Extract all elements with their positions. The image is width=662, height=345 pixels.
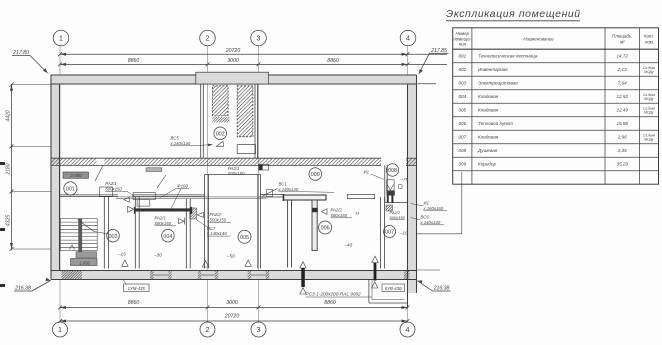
svg-text:–15: –15: [117, 252, 126, 257]
svg-text:500х150: 500х150: [390, 215, 406, 220]
svg-text:008: 008: [388, 168, 397, 174]
svg-text:008: 008: [458, 148, 466, 153]
room 008 west wall: [385, 165, 387, 202]
svg-text:Электрощитовая: Электрощитовая: [478, 81, 518, 86]
svg-text:2,13: 2,13: [617, 67, 627, 72]
svg-text:КУВ-43Б: КУВ-43Б: [385, 286, 402, 291]
exterior wall fills: [51, 75, 417, 293]
ventilation duct bar room 006 (outlined): [283, 194, 326, 201]
svg-text:500х150: 500х150: [331, 213, 348, 218]
svg-text:005: 005: [240, 235, 249, 241]
svg-text:003: 003: [109, 234, 118, 240]
svg-text:2180: 2180: [6, 163, 12, 175]
table header row line: [453, 48, 659, 50]
svg-text:2.550: 2.550: [70, 173, 83, 178]
svg-text:500х150: 500х150: [155, 221, 172, 226]
elevation mark 216.38 bottom right: [417, 270, 451, 292]
level box 1.650 under stairs: [71, 259, 98, 266]
svg-text:14,72: 14,72: [616, 54, 628, 59]
svg-text:4420: 4420: [6, 110, 12, 121]
table row 007: [458, 134, 655, 142]
door dark bar room 006 bottom: [374, 263, 377, 281]
grid line 1: [59, 46, 61, 323]
svg-text:500х150: 500х150: [105, 186, 122, 191]
door symbol in room 004: [179, 219, 185, 224]
svg-text:1.650: 1.650: [79, 261, 91, 266]
exterior wall top: [51, 74, 417, 76]
room 005 west wall: [205, 175, 209, 269]
level marker triangles at doors: [122, 256, 379, 294]
svg-text:ния: ния: [459, 42, 467, 47]
room 005 east wall: [258, 175, 261, 269]
left vertical dimension line 4420/2180/4325: [6, 83, 52, 251]
floor drain room 008: [399, 185, 403, 189]
label box KUV-43B: [382, 284, 405, 292]
svg-text:Наименование: Наименование: [523, 37, 554, 42]
top total dimension line 20720: [58, 48, 447, 56]
window sill lines in bottom wall: [154, 274, 266, 276]
svg-text:3: 3: [256, 325, 260, 334]
entrance pit bottom right: [369, 280, 408, 304]
stair shaft wall left (grid 2): [201, 84, 204, 158]
UV box on band left: [146, 168, 162, 172]
wall between 006 and 007: [380, 197, 384, 269]
svg-text:4: 4: [405, 325, 409, 334]
svg-text:к.160х160: к.160х160: [424, 206, 444, 211]
vestibule boxes at room 004 top: [133, 193, 155, 200]
label VS1 k.140x140 corridor: [279, 182, 299, 192]
svg-text:Кладовая: Кладовая: [478, 108, 499, 113]
elevation mark 216.38 bottom left: [14, 278, 51, 292]
svg-text:20720: 20720: [225, 48, 241, 54]
grid line 2: [207, 46, 209, 323]
room circle 006: [319, 221, 332, 234]
svg-text:к.140х140: к.140х140: [171, 141, 191, 146]
svg-text:–50: –50: [226, 254, 235, 259]
svg-text:РА2/2: РА2/2: [331, 208, 343, 213]
label VS5 k.140x140: [171, 136, 191, 146]
stair flight hatched strip upper left: [212, 86, 228, 116]
label I1 k.160x160: [424, 201, 444, 211]
svg-text:3: 3: [256, 34, 260, 43]
svg-text:ВС5: ВС5: [171, 136, 180, 141]
room circle 005: [238, 230, 251, 243]
label RA2/1 500x150 on band: [228, 166, 245, 176]
stairs room 001: [60, 219, 97, 251]
room 008 south wall: [385, 202, 408, 204]
table title: [446, 9, 581, 21]
svg-text:006: 006: [321, 226, 330, 232]
svg-text:Тепловой пункт: Тепловой пункт: [478, 120, 513, 126]
elevation mark 217.80 top left: [12, 50, 48, 73]
svg-text:РС3-1-200х200-RAL 9002: РС3-1-200х200-RAL 9002: [306, 292, 362, 297]
svg-text:22,49: 22,49: [615, 108, 628, 113]
exterior wall right: [416, 75, 418, 293]
svg-text:1: 1: [58, 325, 62, 334]
room circle 007: [384, 226, 396, 238]
svg-text:216.38: 216.38: [14, 286, 31, 292]
label box 1UM-435: [124, 280, 150, 292]
svg-text:20720: 20720: [224, 313, 240, 319]
svg-text:ВС6: ВС6: [421, 215, 430, 220]
level box 2.550 room 001: [63, 172, 89, 178]
svg-text:500х150: 500х150: [228, 171, 245, 176]
stair shaft wall right (grid 3): [255, 84, 258, 158]
vent shaft hatched block between 004 and 005: [190, 208, 197, 219]
svg-text:8860: 8860: [324, 300, 336, 306]
hatched pier bottom-right corner: [404, 271, 410, 280]
wall between 003 and 004: [135, 197, 139, 269]
svg-text:003: 003: [458, 81, 466, 86]
svg-text:к.140х140: к.140х140: [421, 220, 441, 225]
svg-text:МОДу: МОДу: [644, 97, 654, 101]
dark block room 007 duct: [386, 205, 393, 211]
hatched pier bottom-left corner: [62, 271, 83, 280]
room circle 004: [162, 229, 175, 242]
svg-text:–75: –75: [400, 177, 409, 182]
svg-text:216.38: 216.38: [433, 286, 450, 292]
svg-text:Экспликация помещений: Экспликация помещений: [446, 9, 581, 20]
table row 001: [458, 54, 628, 59]
svg-text:009: 009: [311, 172, 320, 178]
room 006 north wall east segment: [347, 194, 374, 198]
grid circle 3 bottom: [251, 322, 266, 337]
svg-text:Кат.: Кат.: [644, 34, 654, 39]
door triangle corridor left: [124, 197, 129, 202]
label VS7 k.140x140: [207, 226, 227, 236]
label RA2/1 500x150 corridor: [105, 181, 122, 191]
table row lines: [453, 62, 659, 64]
svg-text:1УМ-435: 1УМ-435: [128, 286, 146, 291]
svg-text:001: 001: [66, 187, 75, 193]
svg-text:Душевая: Душевая: [477, 148, 498, 153]
UV box on band right: [259, 165, 269, 171]
room 006 north wall west segment: [261, 194, 284, 197]
stair flight hatched strip right: [237, 86, 253, 137]
grid line 4: [407, 46, 409, 323]
landing box in shaft: [237, 145, 255, 154]
svg-text:пом: пом: [645, 40, 653, 45]
grid circle 4 top: [400, 30, 416, 46]
label F100: [161, 183, 190, 209]
svg-text:15,88: 15,88: [616, 121, 628, 126]
door arrow below 002: [216, 141, 223, 146]
label RA2/2 500x150 room 005: [210, 212, 227, 222]
svg-text:2: 2: [205, 325, 209, 334]
svg-text:РА2/2: РА2/2: [210, 212, 222, 217]
exterior wall left: [50, 75, 52, 280]
room circle 009: [309, 168, 322, 181]
table row 005: [458, 107, 655, 115]
stair up arrow: [70, 220, 110, 250]
elevation mark 217.85 top right: [418, 48, 449, 84]
svg-text:–10: –10: [399, 231, 408, 236]
svg-text:007: 007: [385, 230, 394, 236]
label RA2/1 500x150 room 004: [155, 216, 172, 226]
svg-text:14: 14: [355, 212, 359, 216]
svg-text:Коридор: Коридор: [478, 162, 496, 167]
wall between 001 and 003: [104, 197, 108, 269]
label RA2/2 500x150 room 007: [390, 210, 406, 220]
door triangle at duct left: [128, 206, 134, 212]
door swing corridor to 006: [263, 189, 278, 197]
grid circle 4 bottom: [400, 322, 415, 337]
svg-text:РА2/1: РА2/1: [155, 216, 167, 221]
table row 002: [458, 66, 655, 74]
svg-text:м²: м²: [620, 40, 625, 45]
svg-text:ВС1: ВС1: [279, 182, 288, 187]
svg-text:002: 002: [216, 132, 225, 138]
leader slash near UV box: [157, 175, 166, 188]
svg-text:1: 1: [59, 34, 63, 43]
room circle 003: [107, 229, 120, 242]
leader box around labels right of plan: [417, 172, 462, 234]
svg-text:3000: 3000: [227, 58, 239, 64]
table header texts: [453, 31, 654, 47]
svg-text:002: 002: [458, 67, 466, 72]
table row 009: [458, 162, 628, 167]
svg-text:Технологическая лестница: Технологическая лестница: [478, 54, 538, 59]
label RS3 louver: [306, 292, 373, 297]
grid circle 2 top: [200, 30, 216, 46]
room circle 002: [214, 127, 227, 140]
svg-text:007: 007: [458, 135, 466, 140]
dark register block on spur: [312, 208, 318, 212]
table row 004: [458, 93, 655, 101]
svg-text:8860: 8860: [327, 58, 339, 64]
room circle 001: [64, 182, 77, 195]
svg-text:8860: 8860: [128, 300, 140, 306]
scan edge marks: [0, 164, 5, 286]
stair landing dark block: [212, 117, 229, 122]
svg-text:МОДу: МОДу: [644, 111, 654, 115]
grid circle 2 bottom: [200, 322, 215, 337]
svg-text:РА2/1: РА2/1: [105, 181, 117, 186]
grid line 3: [258, 46, 260, 323]
F100 pipe line along corridor: [116, 197, 267, 198]
partition spur in room 006: [312, 200, 317, 251]
svg-text:И1: И1: [424, 201, 430, 206]
svg-text:4325: 4325: [6, 215, 12, 226]
svg-text:35,29: 35,29: [616, 162, 628, 167]
room circle 008: [386, 164, 398, 176]
louver RS3 dark bar in bottom wall: [301, 268, 305, 287]
svg-text:3000: 3000: [226, 300, 238, 306]
svg-text:006: 006: [458, 121, 466, 126]
stair central stringer: [78, 219, 82, 252]
table row 008: [458, 148, 627, 153]
svg-text:Кладовая: Кладовая: [478, 135, 499, 140]
table row 006: [458, 120, 628, 126]
middle hatched wall band: [51, 158, 417, 165]
ventilation duct dark bar room 004: [134, 207, 192, 214]
svg-text:4: 4: [406, 34, 410, 43]
corridor south wall left part: [60, 195, 205, 197]
svg-text:2,35: 2,35: [617, 148, 627, 153]
svg-text:004: 004: [163, 234, 172, 240]
svg-text:2: 2: [205, 34, 209, 43]
svg-text:МОДу: МОДу: [644, 70, 654, 74]
svg-text:Площадь,: Площадь,: [612, 34, 632, 39]
top segment dimension line 8860/3000/8860: [58, 58, 447, 66]
shower tray room 008: [387, 180, 395, 191]
svg-text:МОДу: МОДу: [644, 138, 654, 142]
svg-text:И1: И1: [364, 170, 370, 175]
svg-text:500х150: 500х150: [210, 217, 227, 222]
svg-text:217.80: 217.80: [12, 50, 29, 56]
svg-text:Ф100: Ф100: [177, 183, 188, 188]
wall between 004 and 005: [186, 199, 190, 269]
svg-text:Номер: Номер: [456, 31, 470, 36]
svg-text:009: 009: [458, 162, 466, 167]
label RA2/2 500x150 room 006: [331, 208, 348, 218]
svg-text:005: 005: [458, 108, 466, 113]
svg-text:к.140х140: к.140х140: [279, 187, 299, 192]
table column lines: [471, 28, 473, 184]
svg-text:–40: –40: [344, 243, 353, 248]
pipe end cap: [267, 190, 273, 197]
svg-text:Кладовая: Кладовая: [478, 94, 499, 99]
door jamb bars below 008: [387, 196, 388, 204]
svg-text:8860: 8860: [128, 58, 140, 64]
stair shaft header block on top wall: [196, 72, 269, 84]
table outer frame: [453, 28, 659, 184]
table row 003: [458, 81, 627, 86]
grid circle 3 top: [251, 30, 267, 46]
svg-text:7,64: 7,64: [618, 81, 627, 86]
bottom total dimension line 20720: [58, 313, 410, 323]
svg-text:Инвентарная: Инвентарная: [478, 67, 508, 72]
label VS6 k.140x140: [421, 215, 441, 225]
svg-text:004: 004: [458, 94, 466, 99]
svg-text:2,96: 2,96: [617, 135, 627, 140]
bottom segment dimension line 8860/3000/8860: [58, 300, 410, 310]
УВ dark box above 1.650: [76, 252, 97, 258]
grid circle 1 bottom: [53, 322, 68, 337]
door swing in band (room 001 to upper room): [95, 165, 103, 181]
exterior wall bottom: [51, 270, 417, 272]
svg-text:РА2/1: РА2/1: [228, 166, 240, 171]
svg-text:–30: –30: [153, 253, 162, 258]
grid circle 1 top: [53, 30, 69, 46]
pilaster near room 001: [100, 187, 113, 196]
svg-text:к.140х140: к.140х140: [207, 231, 227, 236]
partition wall in room 006 (long): [288, 200, 292, 268]
svg-text:12,52: 12,52: [616, 94, 628, 99]
dark block room 008: [387, 191, 395, 196]
window jambs in bottom wall: [150, 271, 269, 280]
svg-text:001: 001: [458, 54, 466, 59]
svg-text:помеще-: помеще-: [453, 36, 471, 41]
arrow to vent shaft: [197, 212, 204, 217]
svg-text:ВС7: ВС7: [207, 226, 216, 231]
room 005 north wall: [205, 174, 261, 176]
